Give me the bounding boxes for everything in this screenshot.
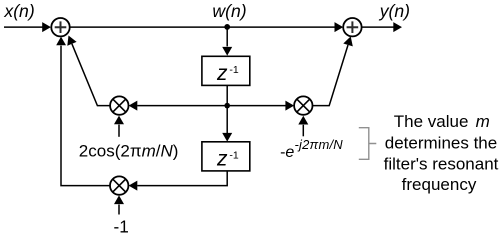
brace bracket (359, 128, 377, 160)
wire node B to multiplier M2 (right) (227, 101, 294, 111)
multiplier M2 (right) (294, 96, 312, 114)
wire M2 right and up to adder A2 (313, 36, 353, 105)
wire Z2 down and left to multiplier M3 (129, 171, 228, 191)
wire node B down to delay Z2 (222, 108, 232, 142)
svg-text:2cos(2πm/N): 2cos(2πm/N) (79, 141, 179, 160)
node w(n) label (212, 1, 246, 21)
coefficient arrow into M1 from label 2cos (114, 116, 124, 137)
adder A2 (right sum) (343, 18, 361, 36)
svg-text:frequency: frequency (402, 175, 477, 194)
wire Z1 to node B (226, 85, 228, 105)
coefficient label -e^-j2pi m/N (280, 137, 343, 161)
coefficient arrow into M2 from label -e (298, 116, 308, 137)
multiplier M3 (bottom, -1) (110, 176, 128, 194)
delay block Z2 z^-1 (202, 142, 250, 171)
multiplier M1 (left) (110, 96, 128, 114)
wire A1 to adder A2 (through node w) (70, 22, 343, 32)
wire A2 to output y(n) (362, 22, 402, 32)
node y(n) label (379, 1, 410, 21)
svg-text:determines the: determines the (385, 133, 497, 152)
wire input x(n) to adder A1 (4, 22, 51, 32)
node x(n) label (3, 1, 34, 21)
svg-text:-1: -1 (114, 217, 129, 236)
wire M1 up-left to adder A1 (67, 36, 110, 106)
svg-text:-1: -1 (229, 149, 238, 161)
coefficient arrow into M3 from label -1 (114, 195, 124, 214)
coefficient label 2cos(2pi m/N) (79, 141, 179, 160)
svg-text:y(n): y(n) (379, 1, 410, 21)
svg-text:-e: -e (280, 144, 294, 161)
annotation text block (384, 112, 499, 194)
node B junction dot (224, 103, 230, 109)
svg-text:-1: -1 (229, 64, 238, 76)
svg-text:filter's resonant: filter's resonant (384, 154, 499, 173)
adder A1 (left sum) (51, 18, 69, 36)
wire node B to multiplier M1 (left) (129, 101, 228, 111)
svg-text:-j2πm/N: -j2πm/N (295, 137, 344, 152)
delay block Z1 z^-1 (202, 56, 250, 85)
svg-text:z: z (216, 147, 228, 170)
svg-text:x(n): x(n) (3, 1, 34, 21)
svg-text:z: z (216, 62, 228, 85)
svg-text:The value m: The value m (394, 112, 490, 131)
coefficient label -1 (114, 217, 129, 237)
wire M3 left and up to adder A1 (56, 37, 110, 186)
wire node w down to delay Z1 (222, 29, 232, 56)
svg-text:w(n): w(n) (212, 1, 246, 21)
node w junction dot (224, 24, 230, 30)
